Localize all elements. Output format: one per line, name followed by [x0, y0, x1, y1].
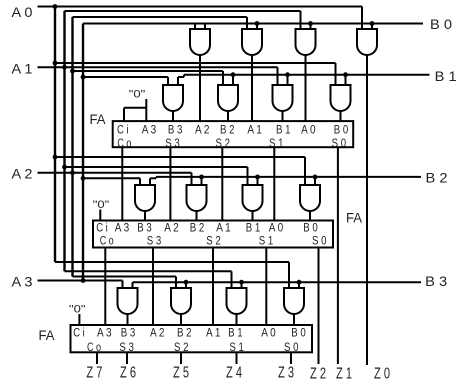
svg-text:B 3: B 3	[425, 273, 447, 289]
svg-text:Z 3: Z 3	[278, 365, 294, 382]
svg-text:C i: C i	[117, 125, 129, 137]
svg-text:A 1: A 1	[216, 223, 231, 235]
svg-text:Z 7: Z 7	[86, 364, 102, 381]
svg-text:"0": "0"	[93, 199, 110, 211]
svg-text:"0": "0"	[69, 303, 86, 315]
svg-text:B 3: B 3	[168, 125, 183, 137]
svg-text:B 3: B 3	[137, 223, 152, 235]
svg-text:A 0: A 0	[301, 125, 316, 137]
svg-text:S 0: S 0	[332, 138, 347, 150]
svg-text:S 0: S 0	[284, 342, 299, 354]
svg-text:B 2: B 2	[190, 223, 205, 235]
svg-text:A 1: A 1	[247, 125, 262, 137]
svg-text:S 3: S 3	[165, 138, 180, 150]
svg-text:B 0: B 0	[303, 223, 318, 235]
svg-text:C o: C o	[117, 138, 131, 150]
svg-text:A 3: A 3	[115, 223, 130, 235]
svg-text:C i: C i	[73, 328, 85, 340]
svg-text:A 3: A 3	[97, 328, 112, 340]
svg-text:A 2: A 2	[150, 328, 165, 340]
svg-text:B 3: B 3	[121, 328, 136, 340]
svg-text:"0": "0"	[129, 88, 146, 100]
svg-text:B 1: B 1	[228, 328, 243, 340]
svg-text:B 0: B 0	[334, 125, 349, 137]
svg-text:Z 2: Z 2	[310, 366, 326, 383]
svg-text:A 1: A 1	[12, 61, 33, 77]
svg-text:A 0: A 0	[269, 223, 284, 235]
svg-text:S 3: S 3	[147, 236, 162, 248]
svg-text:S 1: S 1	[229, 342, 244, 354]
svg-text:S 2: S 2	[206, 236, 221, 248]
svg-text:S 1: S 1	[259, 236, 274, 248]
svg-text:B 1: B 1	[276, 125, 291, 137]
svg-text:B 1: B 1	[435, 68, 457, 84]
svg-text:FA: FA	[39, 328, 55, 343]
svg-text:Z 6: Z 6	[120, 364, 136, 381]
svg-text:B 2: B 2	[177, 328, 192, 340]
svg-text:A 0: A 0	[12, 4, 33, 20]
svg-text:S 2: S 2	[216, 138, 231, 150]
svg-text:S 0: S 0	[312, 236, 327, 248]
svg-text:C o: C o	[100, 236, 114, 248]
svg-text:S 2: S 2	[174, 342, 189, 354]
svg-text:A 2: A 2	[164, 223, 179, 235]
svg-text:Z 0: Z 0	[374, 366, 390, 383]
svg-text:B 0: B 0	[430, 16, 452, 32]
svg-text:A 2: A 2	[195, 125, 210, 137]
svg-text:Z 4: Z 4	[226, 365, 242, 382]
svg-text:C i: C i	[96, 223, 108, 235]
svg-text:B 2: B 2	[426, 170, 448, 186]
svg-text:Z 1: Z 1	[336, 366, 352, 383]
svg-text:FA: FA	[346, 210, 362, 225]
svg-text:C o: C o	[87, 342, 101, 354]
svg-text:Z 5: Z 5	[173, 365, 189, 382]
svg-text:B 1: B 1	[246, 223, 261, 235]
svg-text:A 1: A 1	[206, 328, 221, 340]
svg-text:A 0: A 0	[261, 328, 276, 340]
svg-text:B 2: B 2	[220, 125, 235, 137]
svg-text:S 1: S 1	[269, 138, 284, 150]
svg-text:S 3: S 3	[119, 342, 134, 354]
svg-text:A 2: A 2	[12, 166, 33, 182]
svg-text:B 0: B 0	[291, 328, 306, 340]
svg-text:A 3: A 3	[142, 125, 157, 137]
svg-text:A 3: A 3	[12, 274, 33, 290]
svg-text:FA: FA	[90, 112, 106, 127]
